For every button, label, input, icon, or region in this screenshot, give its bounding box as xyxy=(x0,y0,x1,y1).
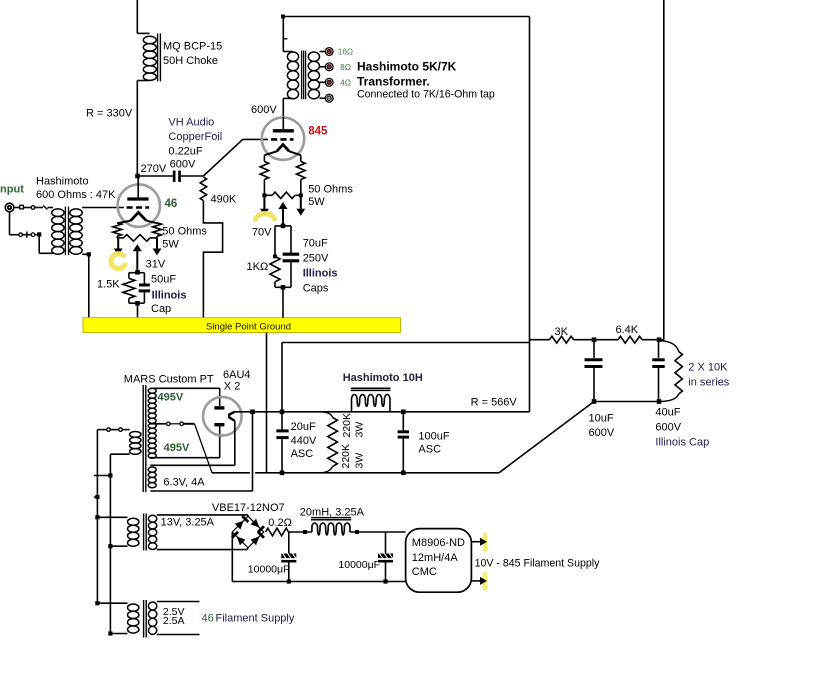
tube 6AU4 cathode xyxy=(229,412,235,466)
tube 6AU4 envelope xyxy=(203,397,242,436)
svg-text:ASC: ASC xyxy=(291,448,314,460)
label Single Point Ground xyxy=(206,321,291,332)
label 6AU4 X 2 xyxy=(223,369,251,393)
label 13V 3.25A xyxy=(161,517,215,529)
transformer T2 secondary xyxy=(308,52,319,99)
tube 845 grid (dashed) xyxy=(271,138,294,141)
svg-text:6.3V, 4A: 6.3V, 4A xyxy=(163,477,205,489)
svg-text:50H Choke: 50H Choke xyxy=(163,55,218,67)
node 270V junction dot (46 plate) xyxy=(135,174,140,179)
svg-text:1KΩ: 1KΩ xyxy=(247,261,269,273)
label 10uF 600V xyxy=(589,413,615,440)
node 20uF ground dot xyxy=(280,471,285,476)
wire ground bar to PSU return xyxy=(266,333,268,473)
label M8906-ND 12mH/4A CMC xyxy=(412,537,465,578)
svg-text:270V: 270V xyxy=(141,163,167,175)
wire mains rail left xyxy=(96,430,98,603)
node after 3K xyxy=(592,337,597,342)
resistor 50 Ohms 5W right (845 filament) xyxy=(296,155,305,195)
input jack J1 xyxy=(5,203,14,212)
node primary low junction xyxy=(37,232,41,236)
tube 46 grid (dashed) xyxy=(127,206,150,209)
svg-text:0.22uF: 0.22uF xyxy=(168,146,203,158)
node RC bottom junction xyxy=(135,301,140,306)
wire T3 primary bottom xyxy=(108,544,127,548)
svg-text:12mH/4A: 12mH/4A xyxy=(412,552,459,564)
svg-text:R = 566V: R = 566V xyxy=(471,397,518,409)
label 1.5K xyxy=(97,279,120,291)
wire T4 primary top xyxy=(95,601,127,605)
svg-text:495V: 495V xyxy=(158,392,184,404)
transformer T1 core xyxy=(65,207,68,256)
node cathode / B+ junction xyxy=(250,410,255,415)
resistor R5 3K xyxy=(550,336,595,343)
label 220K 3W (upper, rotated) xyxy=(341,410,366,437)
wire tap 16 ohm xyxy=(320,51,326,53)
wire B+ top rail (box top edge) xyxy=(283,16,530,18)
svg-text:MARS Custom PT: MARS Custom PT xyxy=(124,374,214,386)
svg-text:Illinois: Illinois xyxy=(303,268,338,280)
potentiometer hum balance 46 xyxy=(117,235,157,242)
label T1 Hashimoto 600 Ohms : 47K xyxy=(36,176,116,202)
label 495V upper xyxy=(158,392,184,404)
svg-text:5W: 5W xyxy=(308,196,325,208)
wire B+ feed from top edge down to choke L1 xyxy=(137,0,149,33)
wire 490K bottom to single point ground (with jog) xyxy=(203,201,222,318)
diode D1 (left-top edge) xyxy=(235,516,249,530)
wire T3 secondary bottom to bridge xyxy=(157,548,248,550)
wire mains hot with fuse terminals xyxy=(97,428,129,432)
transformer PT core xyxy=(143,385,146,492)
svg-text:600 Ohms : 47K: 600 Ohms : 47K xyxy=(36,189,116,201)
label 0.2 ohm xyxy=(268,517,292,529)
wire jack ground side xyxy=(10,212,40,238)
node top-left corner dot xyxy=(281,15,285,19)
svg-text:Hashimoto 5K/7K: Hashimoto 5K/7K xyxy=(357,60,457,74)
wire 845 RC bottom xyxy=(275,286,291,288)
node B+ tap dot xyxy=(280,410,285,415)
svg-text:50 Ohms: 50 Ohms xyxy=(308,184,353,196)
svg-text:0.2Ω: 0.2Ω xyxy=(268,517,292,529)
svg-text:40uF: 40uF xyxy=(655,407,680,419)
resistor R6 6.4K xyxy=(594,336,664,343)
wire jack hot to transformer primary (with switch contacts) xyxy=(14,205,53,209)
svg-text:in series: in series xyxy=(688,377,729,389)
svg-text:70V: 70V xyxy=(252,227,272,239)
svg-text:20mH, 3.25A: 20mH, 3.25A xyxy=(300,506,365,518)
transformer PT primary (mains) xyxy=(130,432,141,455)
svg-text:31V: 31V xyxy=(146,259,166,271)
label 20mH 3.25A xyxy=(300,506,365,518)
wire 495V center tap with connector xyxy=(150,422,194,426)
arrow up center tap (46) xyxy=(133,244,142,272)
svg-text:Filament Supply: Filament Supply xyxy=(216,613,295,625)
wire PSU ground rail (with crossover gap) xyxy=(212,472,499,474)
arrow down left (845) xyxy=(260,195,269,216)
label 50uF Illinois Cap xyxy=(151,274,186,316)
svg-text:2.5A: 2.5A xyxy=(163,615,185,627)
ground bus bar (Single Point Ground) xyxy=(83,318,401,333)
svg-text:3W: 3W xyxy=(354,422,366,438)
svg-text:Illinois Cap: Illinois Cap xyxy=(655,437,709,449)
svg-text:Connected to 7K/16-Ohm tap: Connected to 7K/16-Ohm tap xyxy=(357,89,495,101)
svg-text:440V: 440V xyxy=(291,435,317,447)
tube 46 envelope xyxy=(118,184,160,226)
wire tap 4 ohm xyxy=(320,81,326,83)
wire bleeder bottom rail xyxy=(594,401,661,403)
wire box right edge (B+ riser) xyxy=(529,17,531,412)
transformer T4 primary xyxy=(128,604,139,633)
label 6.3V 4A xyxy=(163,477,205,489)
wire to primary bottom xyxy=(39,234,53,253)
arrow down right (46 filament return) xyxy=(153,238,162,256)
choke L2 Hashimoto 10H xyxy=(351,388,391,412)
label 3K xyxy=(555,326,569,338)
wire RC bottom to ground bar xyxy=(137,303,139,317)
arrow up center tap (845) xyxy=(278,202,287,226)
svg-text:46: 46 xyxy=(165,198,178,210)
label 4 ohm xyxy=(340,78,351,87)
wire 6.3V top to cathode chevron xyxy=(150,464,235,466)
bridge rectifier VBE17-12NO7 diamond xyxy=(232,516,263,548)
svg-text:M8906-ND: M8906-ND xyxy=(412,537,465,549)
label 20uF 440V ASC xyxy=(291,421,317,460)
label 1K ohm xyxy=(247,261,269,273)
svg-text:8Ω: 8Ω xyxy=(340,63,351,72)
node 100uF ground dot xyxy=(401,471,406,476)
capacitor C7 100uF ASC xyxy=(398,412,409,473)
wire RC bottom to ground bar xyxy=(282,287,284,317)
svg-text:6.4K: 6.4K xyxy=(616,324,639,336)
svg-text:100uF: 100uF xyxy=(418,431,449,443)
wire T3 secondary top to bridge xyxy=(157,515,248,517)
svg-text:10V - 845 Filament Supply: 10V - 845 Filament Supply xyxy=(475,558,601,570)
resistor R7 2 X 10K bleeder xyxy=(660,341,683,402)
resistor R3 1.5K cathode xyxy=(123,278,135,303)
wire 6.3V bottom to cathode rail xyxy=(150,412,252,491)
label VBE17-12NO7 xyxy=(212,502,285,514)
svg-text:845: 845 xyxy=(308,125,328,137)
transformer T4 secondary xyxy=(148,602,156,634)
diode D3 (bottom-left edge) xyxy=(232,532,246,546)
transformer T2 primary (Hashimoto 5K/7K) xyxy=(283,52,298,99)
tube 845 plate xyxy=(273,117,294,131)
node bleeder rail right xyxy=(657,399,662,404)
capacitor C8 10000uF (first) xyxy=(281,532,296,582)
transformer T2 core xyxy=(302,51,306,100)
terminal 8 ohm xyxy=(325,63,333,71)
label 10V - 845 Filament Supply xyxy=(475,558,601,570)
wire T1 secondary top to 46 grid xyxy=(82,207,124,209)
label 490K xyxy=(211,194,237,206)
wire choke to module xyxy=(350,530,406,534)
capacitor C3 70uF xyxy=(283,254,300,287)
node pot left junction xyxy=(262,193,266,197)
label 46 Filament Supply xyxy=(202,613,295,625)
wire plate node to coupling cap xyxy=(138,175,173,177)
svg-text:2 X 10K: 2 X 10K xyxy=(688,362,728,374)
label 40uF 600V Illinois Cap xyxy=(655,407,709,449)
label 495V lower xyxy=(164,442,190,454)
wire T4 primary bottom xyxy=(108,631,127,635)
wire T2 primary bottom to 845 plate xyxy=(282,98,284,118)
wire tap 8 ohm xyxy=(320,66,326,68)
node T1 secondary bottom xyxy=(87,252,91,256)
transformer PT winding 495V (lower) xyxy=(148,423,156,458)
label 100uF ASC xyxy=(418,431,449,456)
svg-text:16Ω: 16Ω xyxy=(338,48,353,57)
wire plus rail to 20mH choke xyxy=(289,530,312,534)
svg-text:Single Point Ground: Single Point Ground xyxy=(206,321,291,332)
label 8 ohm xyxy=(340,63,351,72)
resistor R2 490K grid leak xyxy=(200,177,206,201)
capacitor C5 10uF 600V xyxy=(585,340,603,402)
svg-text:3K: 3K xyxy=(555,326,569,338)
svg-text:20uF: 20uF xyxy=(291,421,316,433)
svg-text:13V, 3.25A: 13V, 3.25A xyxy=(161,517,215,529)
capacitor C9 10000uF (second) xyxy=(378,532,393,582)
label Input xyxy=(0,184,24,196)
highlight mark yellow (46) xyxy=(111,254,125,269)
wire 46 cathode RC bottom xyxy=(129,302,145,304)
svg-text:5W: 5W xyxy=(162,239,179,251)
svg-text:Transformer.: Transformer. xyxy=(357,75,430,89)
svg-text:ASC: ASC xyxy=(418,444,441,456)
wire 3K feed xyxy=(530,339,550,341)
wire B+ rail (6AU4 output) xyxy=(235,411,530,413)
svg-text:600V: 600V xyxy=(589,427,615,439)
transformer T3 13V core xyxy=(144,514,147,551)
svg-text:10000μF: 10000μF xyxy=(338,559,380,571)
svg-text:600V: 600V xyxy=(170,159,196,171)
label 10000uF (first) xyxy=(248,564,290,576)
node stub at 475 xyxy=(94,473,113,477)
transformer PT winding 6.3V xyxy=(148,467,156,488)
resistor R9 0.2 ohm xyxy=(266,528,289,536)
transformer T1 secondary xyxy=(70,209,82,254)
node stub at 497 xyxy=(94,495,100,499)
svg-text:70uF: 70uF xyxy=(303,238,328,250)
resistor R8 220K 3W bleeder pair xyxy=(322,412,338,473)
diode D2 (top-right edge) xyxy=(251,519,265,533)
svg-text:50uF: 50uF xyxy=(151,274,176,286)
svg-text:Input: Input xyxy=(0,184,24,196)
tube 845 envelope xyxy=(262,118,304,160)
arrow down right (845) xyxy=(296,195,305,216)
label node 270V xyxy=(141,163,167,175)
svg-text:10000μF: 10000μF xyxy=(248,564,290,576)
svg-text:495V: 495V xyxy=(164,442,190,454)
wire center tap diagonal to ground rail xyxy=(195,424,213,473)
wire bridge minus to bottom rail xyxy=(231,532,233,582)
wire 845 RC top xyxy=(275,226,291,257)
capacitor C2 50uF cathode bypass xyxy=(139,285,151,303)
capacitor C1 0.22uF coupling xyxy=(173,171,181,182)
wire box bottom edge xyxy=(282,343,530,412)
capacitor C6 40uF 600V xyxy=(652,340,664,402)
label 70V xyxy=(252,227,272,239)
module U1 M8906-ND CMC xyxy=(406,529,472,593)
svg-text:600V: 600V xyxy=(251,104,277,116)
label 31V xyxy=(146,259,166,271)
tube 6AU4 anode 1 xyxy=(214,406,224,409)
label MARS Custom PT xyxy=(124,374,214,386)
svg-text:4Ω: 4Ω xyxy=(340,78,351,87)
label 16 ohm xyxy=(338,48,353,57)
highlight mark yellow (845) xyxy=(256,214,275,220)
svg-text:CopperFoil: CopperFoil xyxy=(168,131,222,143)
svg-text:1.5K: 1.5K xyxy=(97,279,120,291)
wire 46 cathode RC top xyxy=(129,273,145,285)
wire bottom rail to module xyxy=(232,581,405,583)
wire grid of 845 (diagonal from 490K top node) xyxy=(203,139,268,176)
node pot right junction xyxy=(299,193,303,197)
tube 46 plate xyxy=(127,176,148,199)
svg-text:10uF: 10uF xyxy=(589,413,614,425)
svg-text:50 Ohms: 50 Ohms xyxy=(162,226,207,238)
transformer T3 primary xyxy=(128,518,139,546)
node 100uF junction xyxy=(401,410,406,415)
wire choke to 46 plate node xyxy=(136,81,138,177)
label T2 Hashimoto 5K/7K Transformer xyxy=(357,60,495,101)
label 50 Ohms 5W (845) xyxy=(308,184,353,209)
transformer PT winding 495V (upper) xyxy=(148,388,156,423)
wire mains neutral from primary bottom xyxy=(110,454,129,475)
resistor R4 1K ohm xyxy=(270,256,280,287)
label 600V (845 plate) xyxy=(251,104,277,116)
svg-text:220K,: 220K, xyxy=(341,410,353,437)
output arrow top (10V+) xyxy=(471,533,487,551)
transformer T1 input Hashimoto 600:47K primary xyxy=(52,209,64,254)
node 1K top xyxy=(273,255,277,259)
wire cap to 490K node xyxy=(181,175,204,177)
wire diagonal return to PSU ground rail xyxy=(499,402,594,473)
svg-text:R = 330V: R = 330V xyxy=(86,108,133,120)
svg-text:46: 46 xyxy=(202,613,214,625)
wire 495V lower to 6AU4 anode 2 xyxy=(150,426,219,458)
svg-text:Cap: Cap xyxy=(151,303,171,315)
svg-text:6AU4: 6AU4 xyxy=(223,369,251,381)
label C1 VH Audio CopperFoil 0.22uF 600V xyxy=(168,117,222,171)
wire T4 secondary bottom (open) xyxy=(157,634,200,636)
choke L3 20mH 3.25A xyxy=(311,518,351,535)
transformer T4 2.5V core xyxy=(144,600,147,638)
label 6.4K xyxy=(616,324,639,336)
node 845 cathode RC top xyxy=(281,224,286,229)
tube 46 cathode filament xyxy=(117,212,157,223)
svg-text:CMC: CMC xyxy=(412,566,437,578)
svg-text:X 2: X 2 xyxy=(224,381,241,393)
svg-text:Caps: Caps xyxy=(303,283,329,295)
svg-text:250V: 250V xyxy=(303,253,329,265)
resistor 50 Ohms 5W left (46 filament) xyxy=(113,223,122,238)
diode D4 (bottom-right edge) xyxy=(251,532,265,546)
node bleeder rail left xyxy=(592,399,597,404)
potentiometer hum balance 845 xyxy=(264,192,300,198)
svg-text:Illinois: Illinois xyxy=(152,290,187,302)
node C9 ground xyxy=(383,579,387,583)
label Hashimoto 10H xyxy=(343,372,423,384)
label 220K 3W (lower, rotated) xyxy=(340,444,366,469)
label tube 46 xyxy=(165,198,178,210)
resistor 50 Ohms 5W left (845 filament) xyxy=(260,155,269,195)
label 50 Ohms 5W (46) xyxy=(162,226,207,251)
wire T1 secondary bottom to ground bar xyxy=(82,254,89,317)
node RC bottom xyxy=(281,285,286,290)
resistor 50 Ohms 5W right (46 filament) xyxy=(153,223,162,238)
arrow down left (46 filament return) xyxy=(114,238,123,256)
terminal 16 ohm xyxy=(325,48,333,56)
svg-text:VH Audio: VH Audio xyxy=(168,117,214,129)
node C8 ground xyxy=(287,579,291,583)
terminal 4 ohm xyxy=(325,78,333,86)
wire T2 primary top feed xyxy=(283,17,292,52)
svg-text:Hashimoto: Hashimoto xyxy=(36,176,89,188)
node after 6.4K xyxy=(657,337,662,342)
svg-text:220K: 220K xyxy=(340,444,352,469)
label 2.5V 2.5A xyxy=(163,606,185,627)
label tube 845 xyxy=(308,125,328,137)
wire T4 secondary top (open) xyxy=(157,601,200,603)
svg-text:490K: 490K xyxy=(211,194,237,206)
label 10000uF (second) xyxy=(338,559,380,571)
svg-text:Hashimoto 10H: Hashimoto 10H xyxy=(343,372,423,384)
label 2 X 10K in series xyxy=(688,362,729,389)
wire 495V upper to 6AU4 anode 1 xyxy=(150,388,219,406)
svg-text:600V: 600V xyxy=(655,422,681,434)
output arrow bottom (10V-) xyxy=(471,572,487,590)
wire T3 primary top xyxy=(95,515,127,519)
wire mains rail right xyxy=(109,476,111,634)
capacitor C4 20uF 440V ASC xyxy=(276,412,288,473)
svg-text:MQ BCP-15: MQ BCP-15 xyxy=(163,41,222,53)
tube 6AU4 anode 2 xyxy=(214,423,224,426)
label R = 566V xyxy=(471,397,518,409)
choke L1 MQ BCP-15 50H xyxy=(137,33,160,81)
transformer T3 secondary xyxy=(148,515,156,549)
terminal common xyxy=(325,94,333,102)
label R = 330V xyxy=(86,108,133,120)
tube 845 cathode filament xyxy=(264,145,300,156)
wire tap common xyxy=(320,97,326,99)
node 46 cathode top junction xyxy=(135,270,140,275)
label 70uF 250V Illinois Caps xyxy=(303,238,338,295)
label choke L1 xyxy=(163,41,222,68)
svg-text:VBE17-12NO7: VBE17-12NO7 xyxy=(212,502,285,514)
wire right-edge riser (to top of page) xyxy=(663,0,665,340)
svg-text:3W: 3W xyxy=(354,453,366,469)
